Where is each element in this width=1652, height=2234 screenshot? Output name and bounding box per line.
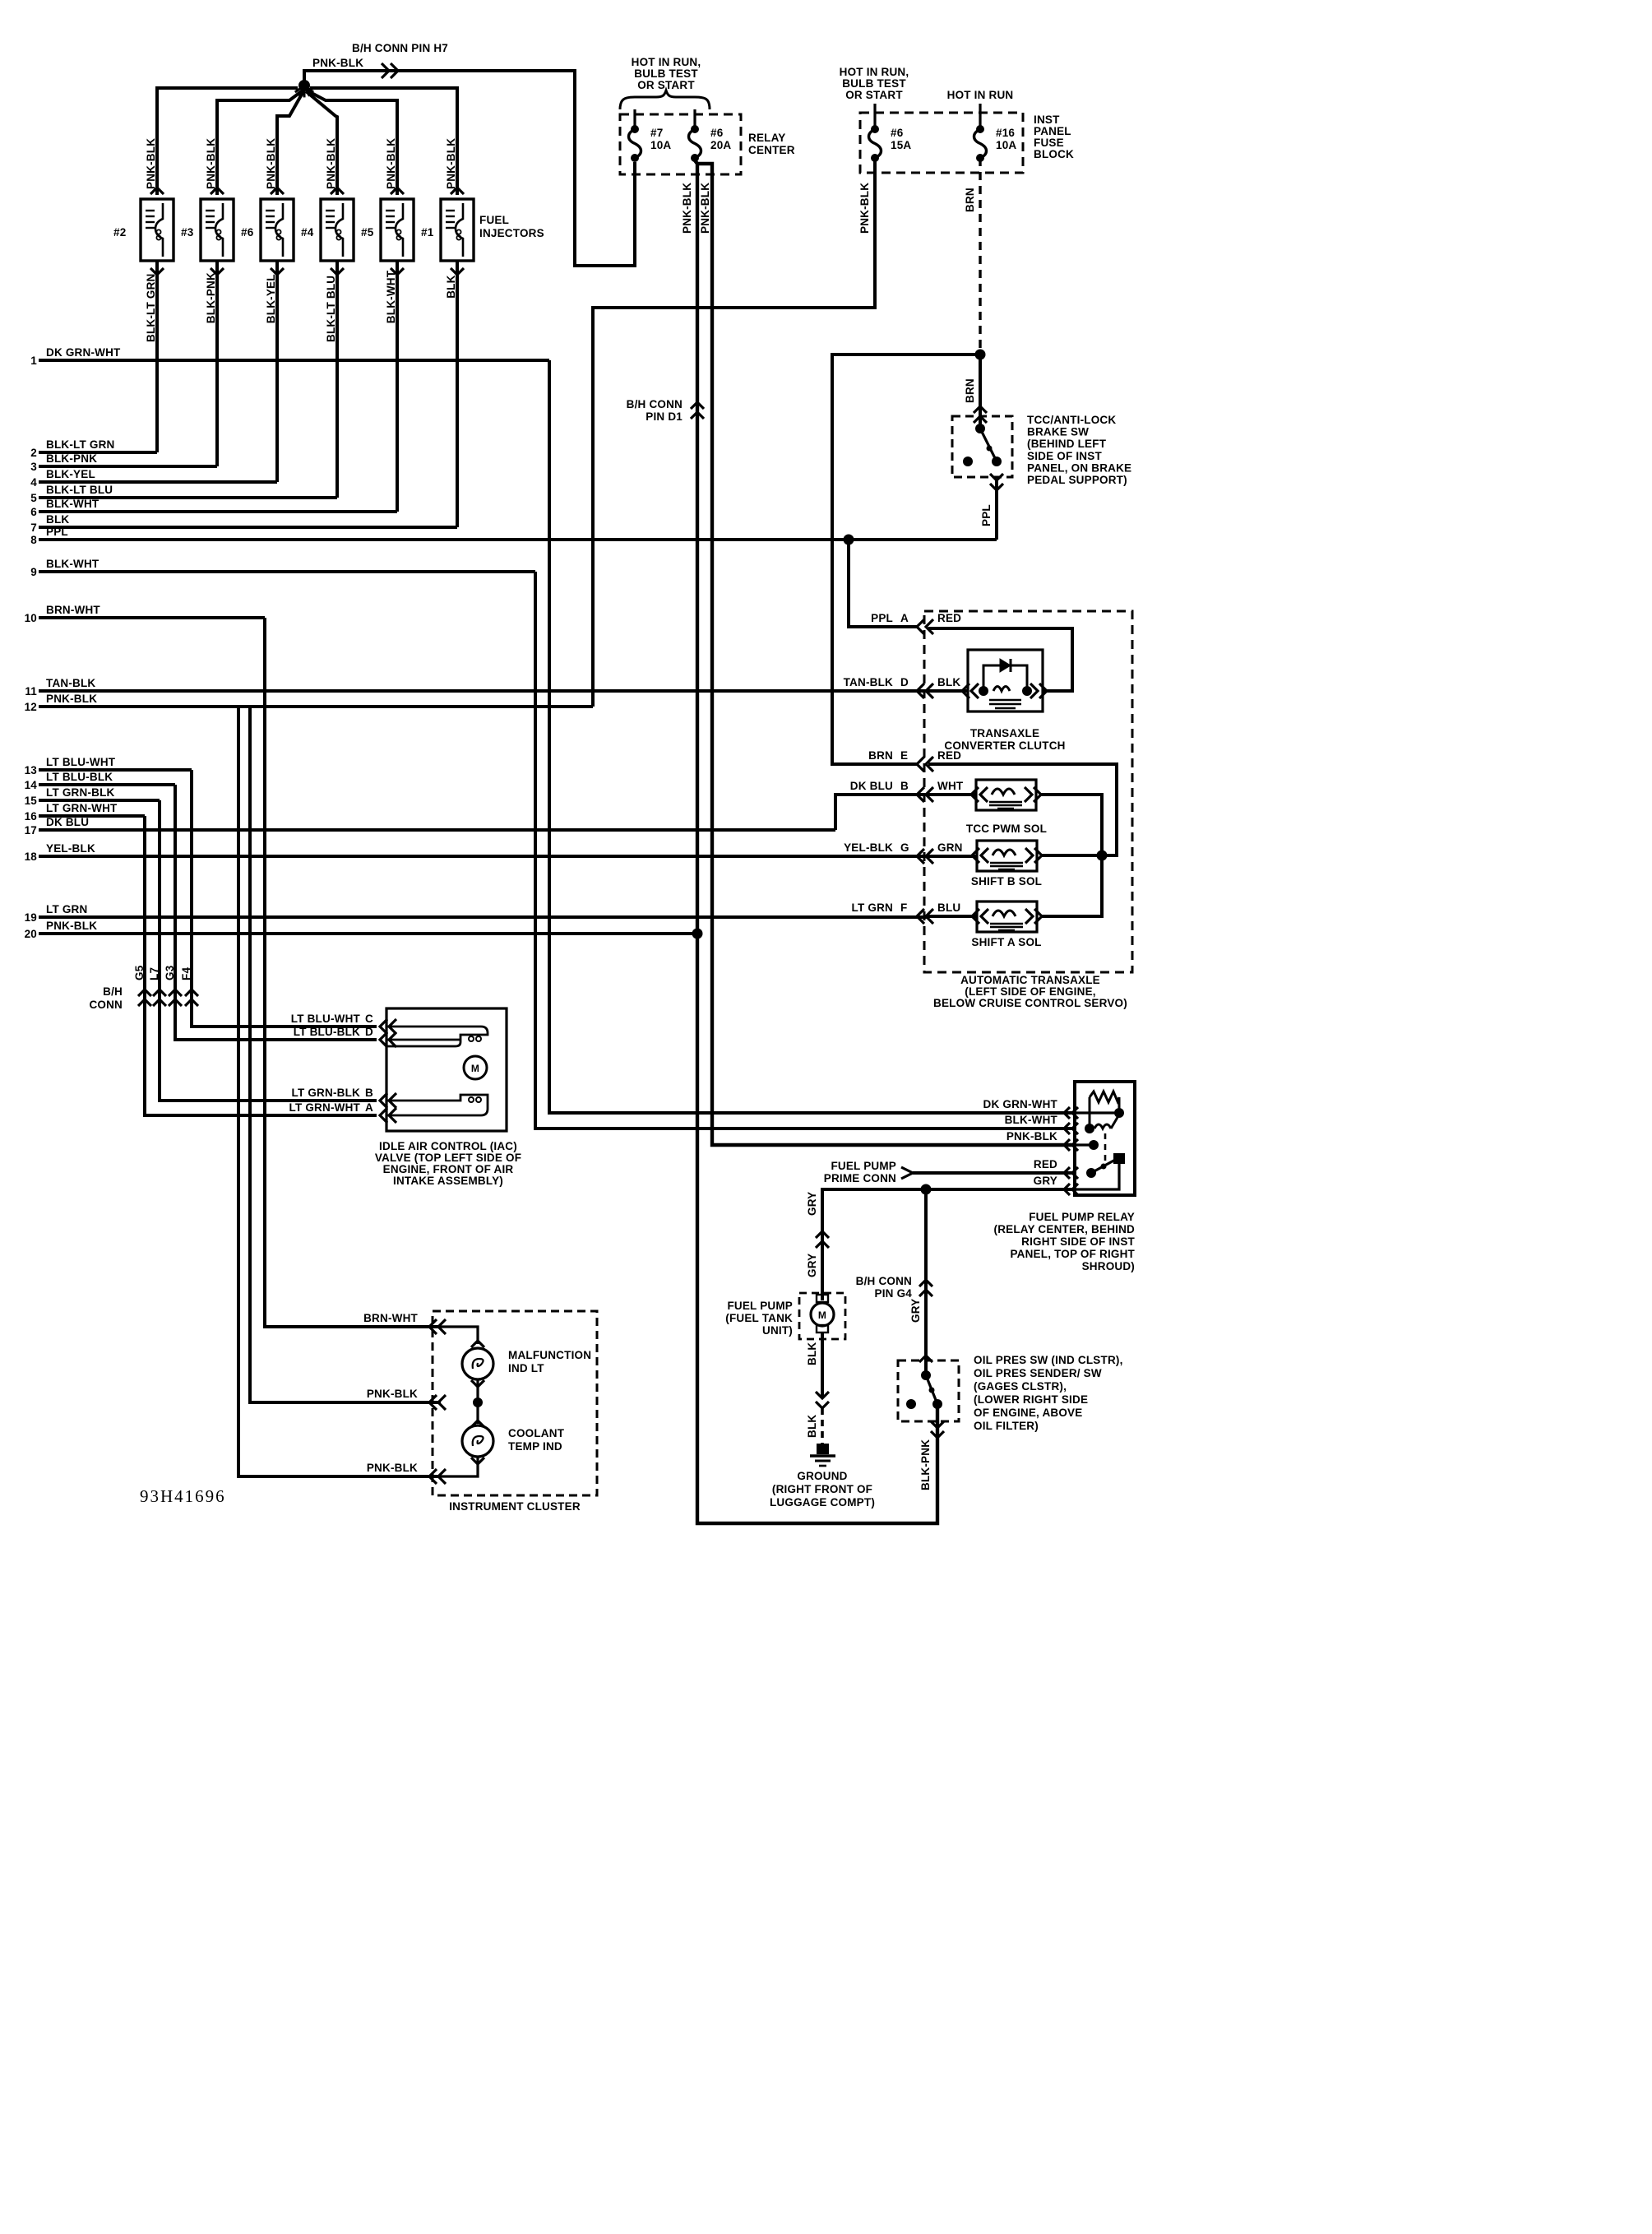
solenoid SHIFT B SOL xyxy=(977,841,1037,871)
connector converter clutch output chevrons xyxy=(1030,684,1038,698)
lamp COOLANT TEMP IND xyxy=(471,1421,484,1427)
transaxle converter clutch box xyxy=(968,650,1043,711)
svg-text:LT BLU-BLK: LT BLU-BLK xyxy=(294,1026,360,1038)
svg-text:15: 15 xyxy=(25,795,38,807)
wire row 14 down via B/H conn to IAC xyxy=(175,785,377,1040)
svg-text:CONN: CONN xyxy=(89,999,123,1011)
node junction PNK-BLK cluster xyxy=(473,1397,483,1407)
connector transaxle pin E chevrons xyxy=(917,757,924,772)
svg-text:INST: INST xyxy=(1034,114,1060,126)
connector chevrons BLK ground xyxy=(816,1402,829,1408)
svg-text:93H41696: 93H41696 xyxy=(140,1486,226,1506)
svg-text:BULB TEST: BULB TEST xyxy=(634,67,698,80)
fuel injector #5 xyxy=(381,199,414,261)
svg-text:M: M xyxy=(471,1063,479,1074)
svg-text:HOT IN RUN: HOT IN RUN xyxy=(947,89,1014,101)
svg-text:#1: #1 xyxy=(421,226,434,239)
svg-text:GRY: GRY xyxy=(909,1299,922,1323)
svg-text:PIN D1: PIN D1 xyxy=(646,410,683,423)
svg-text:PNK-BLK: PNK-BLK xyxy=(1006,1130,1057,1142)
wire BLK to ground symbol xyxy=(821,1408,824,1445)
svg-text:E: E xyxy=(900,749,908,762)
wire row 13 down via B/H conn to IAC xyxy=(192,770,377,1027)
svg-text:DK GRN-WHT: DK GRN-WHT xyxy=(983,1098,1058,1110)
wire BLK-WHT row9 vertical to fuel pump relay xyxy=(535,572,1075,1129)
svg-text:LT BLU-WHT: LT BLU-WHT xyxy=(291,1013,361,1025)
svg-text:BRN-WHT: BRN-WHT xyxy=(46,604,100,616)
wire star to injector #4 xyxy=(306,91,337,195)
solenoid TCC PWM SOL xyxy=(976,780,1036,810)
svg-text:RED: RED xyxy=(1034,1158,1057,1170)
svg-text:9: 9 xyxy=(30,566,37,578)
svg-text:#6: #6 xyxy=(891,127,904,139)
wire injector #5 down to row 6 xyxy=(391,268,404,275)
wire PPL brake switch to row 8 xyxy=(995,480,998,540)
svg-text:BLK-YEL: BLK-YEL xyxy=(46,468,95,480)
svg-text:BLK-PNK: BLK-PNK xyxy=(919,1439,932,1490)
svg-text:(FUEL TANK: (FUEL TANK xyxy=(725,1312,793,1324)
wire stub fuse #16 top xyxy=(979,104,981,127)
wire injector #2 down to row 2 xyxy=(150,268,164,275)
svg-text:G5: G5 xyxy=(133,965,146,980)
wire BRN-WHT row10 vertical to instrument cluster xyxy=(265,618,441,1327)
connector transaxle pin F chevrons xyxy=(917,909,924,924)
svg-text:BLK-PNK: BLK-PNK xyxy=(205,272,217,323)
IAC valve lower winding xyxy=(386,1095,488,1115)
svg-text:HOT IN RUN,: HOT IN RUN, xyxy=(840,66,909,78)
svg-text:LT GRN-BLK: LT GRN-BLK xyxy=(292,1087,361,1099)
wire row 15 LT GRN-BLK xyxy=(39,799,160,802)
node junction RED solenoid feed xyxy=(1097,850,1108,861)
relay switch xyxy=(1086,1168,1096,1178)
svg-text:A: A xyxy=(365,1101,373,1114)
connector PNK-BLK into cluster chevrons xyxy=(429,1395,437,1410)
wire DK BLU row17 jog up to transaxle pin B xyxy=(835,795,928,830)
svg-text:PIN G4: PIN G4 xyxy=(875,1287,913,1300)
svg-text:4: 4 xyxy=(30,476,37,489)
wire PNK-BLK fuse #6 second wire to fuel pump relay xyxy=(697,164,1075,1145)
connector B/H CONN PIN H7 arrows xyxy=(391,63,398,78)
svg-text:(LOWER RIGHT SIDE: (LOWER RIGHT SIDE xyxy=(974,1393,1088,1406)
node star junction (PNK-BLK splice) xyxy=(298,80,310,91)
svg-text:INSTRUMENT CLUSTER: INSTRUMENT CLUSTER xyxy=(449,1500,581,1513)
svg-text:BLK-PNK: BLK-PNK xyxy=(46,452,97,465)
connector IAC pin B chevrons xyxy=(380,1093,387,1108)
svg-text:VALVE (TOP LEFT SIDE OF: VALVE (TOP LEFT SIDE OF xyxy=(375,1152,521,1164)
svg-text:B: B xyxy=(900,780,909,792)
svg-text:PNK-BLK: PNK-BLK xyxy=(325,138,337,189)
svg-text:PNK-BLK: PNK-BLK xyxy=(858,183,871,234)
svg-text:PNK-BLK: PNK-BLK xyxy=(46,920,97,932)
wire malfunction lamp to junction xyxy=(476,1379,479,1424)
svg-text:(GAGES CLSTR),: (GAGES CLSTR), xyxy=(974,1380,1067,1393)
wire PNK-BLK row12 tap to instrument cluster (coolant temp ind) xyxy=(238,707,441,1476)
wire row 10 BRN-WHT xyxy=(39,616,265,619)
svg-text:BLOCK: BLOCK xyxy=(1034,148,1074,160)
svg-text:TAN-BLK: TAN-BLK xyxy=(46,677,95,689)
svg-text:BELOW CRUISE CONTROL SERVO): BELOW CRUISE CONTROL SERVO) xyxy=(933,997,1127,1009)
svg-text:C: C xyxy=(365,1013,373,1025)
svg-text:PEDAL SUPPORT): PEDAL SUPPORT) xyxy=(1027,474,1127,486)
wire BLK pin D into converter clutch xyxy=(928,689,968,693)
svg-text:(RELAY CENTER, BEHIND: (RELAY CENTER, BEHIND xyxy=(994,1223,1136,1235)
wire BLK pump to ground xyxy=(821,1333,824,1398)
svg-text:BLK-LT BLU: BLK-LT BLU xyxy=(325,276,337,342)
wire stub fuse #7 top xyxy=(633,109,636,127)
wire coolant lamp to PNK-BLK output xyxy=(441,1457,478,1476)
svg-text:11: 11 xyxy=(25,685,37,698)
wire PNK-BLK fuse #6 to B/H conn pin D1 / row 20 / oil pres sw circuit xyxy=(695,160,937,1523)
svg-text:PANEL: PANEL xyxy=(1034,125,1071,137)
svg-text:BLK: BLK xyxy=(46,513,69,526)
svg-text:#4: #4 xyxy=(301,226,314,239)
connector chevrons GRY to pump xyxy=(816,1231,829,1238)
svg-text:LT GRN-BLK: LT GRN-BLK xyxy=(46,786,115,799)
connector chevrons into brake switch xyxy=(974,406,987,413)
solenoid SHIFT A SOL xyxy=(977,901,1037,932)
wire GRY junction down to oil pres switch xyxy=(924,1189,928,1376)
fuse #16 10A (inst panel) xyxy=(976,125,984,133)
svg-text:3: 3 xyxy=(30,461,37,473)
svg-text:7: 7 xyxy=(30,521,37,534)
svg-text:CENTER: CENTER xyxy=(748,144,795,156)
wire GRN pin G into shift B solenoid xyxy=(928,855,977,858)
svg-text:DK GRN-WHT: DK GRN-WHT xyxy=(46,346,121,359)
svg-text:#3: #3 xyxy=(181,226,194,239)
wire row 18 YEL-BLK xyxy=(39,855,928,858)
svg-text:12: 12 xyxy=(25,701,37,713)
IAC valve box xyxy=(386,1008,507,1131)
svg-text:5: 5 xyxy=(30,492,37,504)
IAC valve motor M xyxy=(464,1056,487,1079)
connector transaxle pin A chevrons xyxy=(917,619,924,634)
svg-text:TRANSAXLE: TRANSAXLE xyxy=(970,727,1039,739)
svg-text:#7: #7 xyxy=(650,127,663,139)
svg-text:D: D xyxy=(365,1026,373,1038)
svg-text:#6: #6 xyxy=(710,127,724,139)
svg-text:PPL: PPL xyxy=(980,504,993,526)
wire BLU pin F into shift A solenoid xyxy=(928,915,977,918)
svg-text:8: 8 xyxy=(30,534,37,546)
svg-text:GRN: GRN xyxy=(937,841,963,854)
svg-text:10A: 10A xyxy=(650,139,671,151)
connector IAC pin D chevrons xyxy=(380,1032,387,1047)
fuel injector #3 xyxy=(201,199,234,261)
wire PNK-BLK row12 tap to instrument cluster (malfunction ind) xyxy=(250,707,441,1402)
connector B/H CONN pin L7 chevrons xyxy=(153,990,166,996)
svg-text:OIL FILTER): OIL FILTER) xyxy=(974,1420,1039,1432)
svg-text:ENGINE, FRONT OF AIR: ENGINE, FRONT OF AIR xyxy=(383,1163,514,1175)
svg-text:HOT IN RUN,: HOT IN RUN, xyxy=(632,56,701,68)
svg-text:B/H CONN PIN H7: B/H CONN PIN H7 xyxy=(352,42,448,54)
connector fuel pump relay GRY chevrons xyxy=(1064,1184,1070,1195)
svg-text:LT GRN-WHT: LT GRN-WHT xyxy=(289,1101,361,1114)
wire row 5 BLK-LT BLU xyxy=(39,496,337,499)
svg-text:BLK-LT GRN: BLK-LT GRN xyxy=(46,438,114,451)
svg-text:PNK-BLK: PNK-BLK xyxy=(145,138,157,189)
svg-text:B/H CONN: B/H CONN xyxy=(856,1275,912,1287)
fuse #6 20A (relay center) xyxy=(691,125,699,133)
connector B/H CONN pin G5 chevrons xyxy=(138,990,151,996)
svg-text:BRN: BRN xyxy=(868,749,893,762)
svg-text:LT GRN: LT GRN xyxy=(46,903,87,915)
fuel injector #6 xyxy=(261,199,294,261)
fuel injector #4 xyxy=(321,199,354,261)
svg-text:10: 10 xyxy=(25,612,37,624)
svg-text:(RIGHT FRONT OF: (RIGHT FRONT OF xyxy=(772,1483,872,1495)
svg-text:LT GRN: LT GRN xyxy=(852,901,893,914)
wire injector #3 down to row 3 xyxy=(211,268,224,275)
svg-text:INTAKE ASSEMBLY): INTAKE ASSEMBLY) xyxy=(393,1175,503,1187)
svg-text:G3: G3 xyxy=(164,965,176,980)
svg-text:SHIFT A SOL: SHIFT A SOL xyxy=(971,936,1041,948)
wire RED converter clutch to pin A xyxy=(928,628,1072,691)
svg-text:B/H: B/H xyxy=(103,985,123,998)
connector chevrons below oil switch xyxy=(931,1431,944,1438)
svg-text:DK BLU: DK BLU xyxy=(46,816,89,828)
wire PNK-BLK star to B/H conn pin H7 and relay center fuse #7 xyxy=(304,71,635,266)
svg-text:BRAKE SW: BRAKE SW xyxy=(1027,426,1089,438)
lamp MALFUNCTION IND LT xyxy=(471,1341,484,1347)
svg-text:13: 13 xyxy=(25,764,38,776)
svg-text:BRN-WHT: BRN-WHT xyxy=(363,1312,418,1324)
relay fuel pump relay box xyxy=(1075,1082,1135,1195)
connector PNK-BLK into cluster chevrons (lower) xyxy=(429,1469,437,1484)
svg-text:B/H CONN: B/H CONN xyxy=(627,398,683,410)
wire RED prime conn to relay xyxy=(913,1171,1075,1175)
svg-text:(LEFT SIDE OF ENGINE,: (LEFT SIDE OF ENGINE, xyxy=(965,985,1095,998)
svg-text:BLU: BLU xyxy=(937,901,960,914)
svg-text:#5: #5 xyxy=(361,226,374,239)
wire row 16 down via B/H conn to IAC xyxy=(145,816,377,1115)
relay center dashed box xyxy=(620,114,741,174)
svg-text:F4: F4 xyxy=(180,967,192,980)
svg-text:CONVERTER CLUTCH: CONVERTER CLUTCH xyxy=(944,739,1065,752)
wire BRN dashed from fuse #16 xyxy=(979,158,981,355)
svg-text:BLK-WHT: BLK-WHT xyxy=(1005,1114,1058,1126)
connector B/H CONN pin F4 chevrons xyxy=(185,990,198,996)
connector fuel pump relay RED chevrons xyxy=(1064,1167,1070,1179)
svg-text:UNIT): UNIT) xyxy=(762,1324,793,1337)
svg-text:L7: L7 xyxy=(148,967,160,980)
svg-text:SIDE OF INST: SIDE OF INST xyxy=(1027,450,1102,462)
wire injector #1 down to row 7 xyxy=(451,268,464,275)
svg-text:PANEL, TOP OF RIGHT: PANEL, TOP OF RIGHT xyxy=(1010,1248,1135,1260)
connector chevrons below brake switch xyxy=(990,484,1003,490)
svg-text:FUEL PUMP RELAY: FUEL PUMP RELAY xyxy=(1029,1211,1135,1223)
fuel injector #1 xyxy=(441,199,474,261)
motor fuel pump M xyxy=(817,1295,828,1302)
svg-text:GRY: GRY xyxy=(1034,1175,1057,1187)
wire relay PNK-BLK internal xyxy=(1089,1140,1099,1150)
svg-text:PNK-BLK: PNK-BLK xyxy=(205,138,217,189)
wire row 1 DK GRN-WHT xyxy=(39,359,549,362)
svg-text:OIL PRES SW (IND CLSTR),: OIL PRES SW (IND CLSTR), xyxy=(974,1354,1123,1366)
wire RED shift A solenoid to junction xyxy=(1042,855,1102,916)
wire BRN junction to transaxle pin E xyxy=(832,355,980,764)
connector B/H CONN pin G3 chevrons xyxy=(169,990,182,996)
svg-text:1: 1 xyxy=(30,355,37,367)
connector transaxle pin D chevrons xyxy=(917,684,924,698)
wire row 6 BLK-WHT xyxy=(39,510,397,513)
connector B/H CONN PIN D1 chevrons xyxy=(691,402,704,409)
wire row 9 BLK-WHT xyxy=(39,570,535,573)
wire star to injector #5 xyxy=(307,90,397,195)
svg-text:BLK-LT GRN: BLK-LT GRN xyxy=(145,274,157,342)
wire star to injector #1 xyxy=(310,88,457,195)
svg-text:BLK: BLK xyxy=(806,1415,818,1438)
connector IAC pin A chevrons xyxy=(380,1108,387,1123)
connector fuel pump relay DK GRN-WHT chevrons xyxy=(1064,1107,1070,1119)
wire star to injector #2 xyxy=(157,88,298,195)
svg-text:TEMP IND: TEMP IND xyxy=(508,1440,562,1453)
svg-text:BRN: BRN xyxy=(964,378,976,403)
svg-text:PNK-BLK: PNK-BLK xyxy=(367,1462,418,1474)
svg-text:PNK-BLK: PNK-BLK xyxy=(699,183,711,234)
svg-text:PNK-BLK: PNK-BLK xyxy=(681,183,693,234)
wire WHT pin B into TCC PWM solenoid xyxy=(928,793,976,796)
svg-text:14: 14 xyxy=(25,779,38,791)
wire star to injector #6 xyxy=(277,91,303,195)
svg-text:FUEL PUMP: FUEL PUMP xyxy=(727,1300,793,1312)
svg-text:PNK-BLK: PNK-BLK xyxy=(367,1388,418,1400)
connector transaxle pin B chevrons xyxy=(917,787,924,802)
wire BRN junction down to TCC/anti-lock brake switch xyxy=(979,355,982,428)
svg-text:BLK-WHT: BLK-WHT xyxy=(46,498,99,510)
automatic transaxle dashed box xyxy=(924,611,1132,972)
instrument cluster dashed box xyxy=(433,1311,597,1495)
svg-text:BLK: BLK xyxy=(806,1342,818,1365)
wire stub fuse #6 top (fuse block) xyxy=(873,104,876,127)
svg-text:20A: 20A xyxy=(710,139,731,151)
svg-text:BLK: BLK xyxy=(937,676,960,688)
node junction row 20 / PNK-BLK feed xyxy=(692,929,703,939)
svg-text:TAN-BLK: TAN-BLK xyxy=(844,676,893,688)
wire relay DK GRN-WHT internal xyxy=(1075,1111,1119,1114)
svg-text:BLK-YEL: BLK-YEL xyxy=(265,274,277,323)
svg-text:PNK-BLK: PNK-BLK xyxy=(265,138,277,189)
wire injector #4 down to row 5 xyxy=(331,268,344,275)
wire row 3 BLK-PNK xyxy=(39,465,217,468)
svg-text:TCC/ANTI-LOCK: TCC/ANTI-LOCK xyxy=(1027,414,1116,426)
svg-text:16: 16 xyxy=(25,810,38,823)
wire PNK-BLK row12 vertical to INST panel fuse #6 xyxy=(593,158,875,707)
svg-text:LT GRN-WHT: LT GRN-WHT xyxy=(46,802,118,814)
relay coil resistor xyxy=(1090,1092,1119,1102)
switch contacts TCC/anti-lock brake sw xyxy=(975,424,985,433)
relay armature linkage (dashed) xyxy=(1104,1133,1107,1163)
svg-text:D: D xyxy=(900,676,909,688)
wire PPL row8 to transaxle pin A xyxy=(849,540,917,627)
connector IAC pin C chevrons xyxy=(380,1019,387,1034)
svg-text:MALFUNCTION: MALFUNCTION xyxy=(508,1349,591,1361)
svg-text:PANEL, ON BRAKE: PANEL, ON BRAKE xyxy=(1027,461,1131,474)
svg-text:15A: 15A xyxy=(891,139,911,151)
node junction GRY xyxy=(921,1184,932,1195)
svg-text:#16: #16 xyxy=(996,127,1015,139)
svg-text:PPL: PPL xyxy=(871,612,893,624)
svg-text:FUEL PUMP: FUEL PUMP xyxy=(831,1160,896,1172)
svg-text:PNK-BLK: PNK-BLK xyxy=(46,693,97,705)
svg-text:OIL PRES SENDER/ SW: OIL PRES SENDER/ SW xyxy=(974,1367,1102,1379)
INST panel fuse block dashed box xyxy=(860,113,1023,173)
connector BRN-WHT into cluster chevrons xyxy=(429,1319,437,1334)
svg-text:LUGGAGE COMPT): LUGGAGE COMPT) xyxy=(770,1496,875,1509)
svg-text:17: 17 xyxy=(25,824,37,837)
fuse #7 10A (relay center) xyxy=(631,125,639,133)
fuse #6 15A (inst panel) xyxy=(871,125,879,133)
svg-text:B: B xyxy=(365,1087,373,1099)
wire row 8 PPL xyxy=(39,538,997,541)
wire row 11 TAN-BLK xyxy=(39,689,928,693)
svg-text:LT BLU-WHT: LT BLU-WHT xyxy=(46,756,116,768)
svg-text:6: 6 xyxy=(30,506,37,518)
relay coil xyxy=(1085,1124,1094,1133)
svg-text:LT BLU-BLK: LT BLU-BLK xyxy=(46,771,113,783)
svg-text:YEL-BLK: YEL-BLK xyxy=(46,842,95,855)
svg-text:RELAY: RELAY xyxy=(748,132,786,144)
wire row 7 BLK xyxy=(39,526,457,529)
svg-text:#6: #6 xyxy=(241,226,254,239)
svg-text:BLK-WHT: BLK-WHT xyxy=(46,558,99,570)
svg-text:PNK-BLK: PNK-BLK xyxy=(445,138,457,189)
wire row 19 LT GRN xyxy=(39,915,928,919)
svg-text:IDLE AIR CONTROL (IAC): IDLE AIR CONTROL (IAC) xyxy=(379,1140,517,1152)
svg-text:GROUND: GROUND xyxy=(797,1470,847,1482)
wire row 16 LT GRN-WHT xyxy=(39,814,145,818)
wire row 20 PNK-BLK xyxy=(39,932,697,935)
svg-text:PNK-BLK: PNK-BLK xyxy=(312,57,363,69)
wire RED shift B solenoid to junction xyxy=(1042,854,1102,857)
wire star to injector #3 xyxy=(217,90,303,195)
svg-text:OR START: OR START xyxy=(845,89,903,101)
ground symbol (right front of luggage compt) xyxy=(817,1444,828,1453)
wire RED pin E to solenoid junction xyxy=(928,764,1117,855)
wire GRY relay to fuel pump xyxy=(822,1189,1075,1300)
svg-text:FUEL: FUEL xyxy=(479,214,509,226)
connector fuel pump relay BLK-WHT chevrons xyxy=(1064,1123,1070,1134)
connector fuel pump prime conn arrow xyxy=(901,1167,913,1179)
svg-text:18: 18 xyxy=(25,850,38,863)
svg-text:PRIME CONN: PRIME CONN xyxy=(824,1172,896,1184)
svg-text:G: G xyxy=(900,841,909,854)
svg-text:SHIFT B SOL: SHIFT B SOL xyxy=(971,875,1042,888)
svg-text:PPL: PPL xyxy=(46,526,68,538)
svg-text:BRN: BRN xyxy=(964,188,976,212)
svg-text:A: A xyxy=(900,612,909,624)
switch oil pressure switch dashed box xyxy=(898,1360,959,1421)
svg-text:10A: 10A xyxy=(996,139,1016,151)
wire injector #6 down to row 4 xyxy=(271,268,284,275)
wire row 4 BLK-YEL xyxy=(39,480,277,484)
svg-text:BULB TEST: BULB TEST xyxy=(842,77,906,90)
switch TCC/anti-lock brake sw dashed box xyxy=(952,416,1012,477)
wire row 15 down via B/H conn to IAC xyxy=(160,800,377,1101)
svg-text:M: M xyxy=(818,1309,826,1321)
svg-text:INJECTORS: INJECTORS xyxy=(479,227,544,239)
svg-text:20: 20 xyxy=(25,928,37,940)
svg-text:BLK: BLK xyxy=(445,275,457,298)
wire row 13 LT BLU-WHT xyxy=(39,768,192,772)
wire row 17 DK BLU xyxy=(39,828,835,832)
svg-text:RED: RED xyxy=(937,612,961,624)
wire row 14 LT BLU-BLK xyxy=(39,783,175,786)
svg-text:PNK-BLK: PNK-BLK xyxy=(385,138,397,189)
svg-text:IND LT: IND LT xyxy=(508,1362,544,1374)
converter clutch coil and diode xyxy=(979,686,988,696)
node junction BRN xyxy=(975,350,986,360)
connector chevrons into oil switch xyxy=(919,1356,932,1362)
